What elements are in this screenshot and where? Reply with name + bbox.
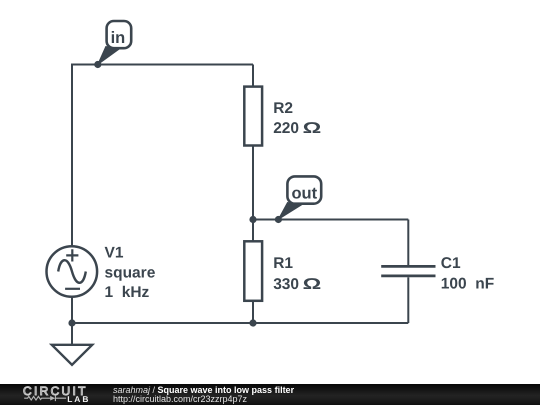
wire R2 bottom lead to out node <box>252 147 254 220</box>
svg-text:Ω: Ω <box>303 120 322 137</box>
wire bottom horizontal <box>72 322 408 324</box>
wire left vertical to V1 top <box>71 64 73 246</box>
svg-text:R1: R1 <box>273 255 293 272</box>
voltage source V1 <box>47 246 98 297</box>
svg-text:R2: R2 <box>273 100 293 117</box>
wire V1 bottom lead <box>71 297 73 323</box>
ground <box>52 345 92 365</box>
capacitor C1 <box>381 266 435 276</box>
svg-text:C1: C1 <box>441 255 461 272</box>
circuitlab logo <box>18 384 113 405</box>
svg-text:100 nF: 100 nF <box>441 275 494 292</box>
node dot out junction <box>249 216 256 223</box>
wire ground lead <box>71 323 73 345</box>
node dot bottom R1 <box>249 319 256 326</box>
node dot bottom left <box>68 319 75 326</box>
node dot in <box>94 61 101 68</box>
footer bar <box>0 384 540 405</box>
svg-text:330: 330 <box>273 276 299 293</box>
svg-text:square: square <box>105 264 156 281</box>
node label out: tail <box>278 203 302 220</box>
wire C1 top lead <box>407 220 409 266</box>
node label in: bubble <box>107 21 132 48</box>
svg-text:1 kHz: 1 kHz <box>105 284 150 301</box>
wire R1 bottom lead <box>252 302 254 323</box>
wire out horizontal to C1 <box>253 219 408 221</box>
svg-text:in: in <box>111 29 126 47</box>
label C1 value <box>441 255 494 293</box>
resistor R2 <box>244 87 262 146</box>
node dot out label <box>275 216 282 223</box>
footer text <box>113 386 294 404</box>
label R2 value <box>273 100 321 137</box>
svg-text:220: 220 <box>273 120 299 137</box>
node label in: tail <box>98 47 120 65</box>
resistor R1 <box>244 241 262 300</box>
label V1 value <box>105 245 156 302</box>
node label out: bubble <box>287 176 321 203</box>
svg-text:Ω: Ω <box>303 276 322 293</box>
wire top horizontal (in net) <box>72 64 253 66</box>
svg-text:V1: V1 <box>105 245 124 262</box>
svg-text:LAB: LAB <box>67 394 90 404</box>
wire C1 bottom lead <box>407 277 409 323</box>
svg-text:out: out <box>291 185 317 203</box>
label R1 value <box>273 255 321 293</box>
wire R1 top lead <box>252 220 254 241</box>
wire R2 top lead <box>252 65 254 87</box>
